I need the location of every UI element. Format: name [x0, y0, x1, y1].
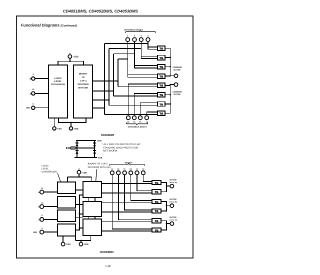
label CHANNELS IN/OUT (top row) with brace	[124, 28, 155, 33]
input pin B (top diagram)	[30, 73, 35, 80]
channel pin X2 (bottom row circle 3)	[138, 116, 142, 124]
svg-text:TG: TG	[159, 75, 163, 78]
block: logic level conversion 3 (bottom diagram)	[57, 210, 75, 222]
wire control bus vertical x=113.4	[112, 54, 114, 96]
svg-text:2: 2	[141, 34, 142, 37]
diode D4 (right, to VSS)	[93, 150, 96, 153]
transmission gate TG6 (bottom diagram)	[152, 228, 161, 232]
svg-text:TG: TG	[159, 94, 163, 97]
block U1: logic level conversion (top diagram)	[49, 65, 68, 118]
svg-text:TO: TO	[82, 76, 85, 79]
svg-text:LEVEL: LEVEL	[42, 167, 50, 170]
svg-text:cx: cx	[136, 169, 138, 171]
svg-text:CONVERSION: CONVERSION	[51, 83, 65, 86]
wire control stub to TG7	[109, 104, 157, 106]
wire decoder control to TG (bottom) 3	[102, 202, 153, 204]
wire channel cy to TG	[143, 175, 152, 182]
inset: input protection network schematic	[66, 140, 103, 160]
svg-text:ax or ay: ax or ay	[170, 181, 178, 184]
svg-text:bx or by: bx or by	[170, 201, 179, 204]
wire TG1 output	[165, 47, 170, 49]
wire decoder control to TG (bottom) 6	[102, 230, 153, 232]
transmission gate TG5 (bottom diagram)	[152, 219, 161, 223]
transmission gate TG8 (top diagram)	[157, 111, 165, 116]
svg-text:1: 1	[127, 34, 128, 37]
wire control stub to TG4	[118, 58, 128, 60]
block: binary to 1-of-2 decoder c (bottom diagram)	[83, 219, 102, 236]
wire channel cx to TG	[137, 175, 152, 191]
wire channel ay to TG	[118, 175, 152, 220]
svg-text:ay: ay	[117, 169, 119, 171]
power pin VEE (bottom diagram)	[75, 236, 90, 246]
page frame	[17, 16, 194, 258]
output pin OUT/IN ax or ay	[170, 179, 178, 188]
output pin OUT/IN cx or cy	[170, 216, 178, 225]
power pin VSS (bottom diagram)	[61, 236, 71, 246]
transmission gate TG5 (top diagram)	[157, 83, 165, 88]
block: logic level conversion 4 (bottom diagram)	[57, 224, 75, 236]
svg-text:CONVERSION: CONVERSION	[42, 170, 58, 173]
output pin OUT/IN bx or by	[170, 198, 179, 207]
svg-text:TG: TG	[155, 191, 159, 194]
wire control stub to TG3	[113, 53, 134, 55]
svg-text:9: 9	[42, 214, 43, 217]
channel pin X1 (bottom row circle 2)	[132, 116, 136, 124]
wire INH distribution bus	[76, 195, 83, 230]
wire decoder output at y=108	[93, 107, 105, 109]
channel pin X0 (bottom row circle 1)	[126, 116, 130, 124]
wire input INH to level conversion	[44, 231, 58, 233]
svg-text:NETWORK: NETWORK	[103, 150, 118, 153]
svg-text:6: 6	[33, 102, 34, 105]
transmission gate TG4 (top diagram)	[157, 74, 165, 79]
svg-text:LOGIC: LOGIC	[54, 77, 62, 80]
label: binary 1-of-2 decoder (pointer)	[88, 163, 111, 169]
power rail VSS (inset)	[75, 157, 97, 159]
transmission gate TG1 (bottom diagram)	[152, 180, 161, 184]
wire X-group common bus	[170, 85, 174, 114]
wire TG pair output bus (cx or cy)	[161, 221, 170, 230]
wire control bus vertical x=117.9	[117, 59, 119, 87]
wire control stub to TG5	[118, 86, 157, 88]
input pin A (top diagram)	[30, 88, 35, 95]
svg-text:by: by	[130, 168, 132, 171]
wire channel ax to TG	[112, 175, 152, 229]
channel pin X3 (bottom row circle 4)	[145, 116, 149, 124]
svg-text:OUT/IN: OUT/IN	[174, 69, 181, 72]
svg-text:TG: TG	[155, 182, 159, 185]
channel pin Y2 (top row circle 3)	[139, 34, 143, 41]
label CHANNELS IN/OUT (bottom row) with brace	[126, 123, 147, 129]
svg-text:TG: TG	[159, 85, 163, 88]
svg-text:LEVEL: LEVEL	[54, 80, 62, 83]
wire TG5 output	[165, 84, 170, 86]
transmission gate TG6 (top diagram)	[157, 92, 165, 97]
svg-text:TG: TG	[155, 201, 159, 204]
wire channel X3 to TG8	[147, 112, 158, 116]
channel pin bx (bottom diagram)	[123, 168, 127, 175]
svg-text:TG: TG	[159, 57, 163, 60]
wire decoder output at y=91	[93, 90, 114, 92]
input wire and resistor	[66, 147, 95, 149]
svg-text:TG: TG	[155, 210, 159, 213]
diode D3 (left, to VSS)	[76, 150, 79, 153]
wire TG7 output	[165, 103, 170, 105]
wire control stub to TG1	[105, 43, 149, 45]
functional block: bottom diagram CD4053BMS	[33, 162, 178, 247]
wire inset vertical right	[94, 141, 96, 158]
svg-text:VDD: VDD	[82, 171, 87, 174]
svg-text:VDD: VDD	[74, 56, 79, 59]
svg-text:TG: TG	[155, 220, 159, 223]
svg-text:12: 12	[127, 121, 129, 124]
common pin X COMMON OUT/IN	[173, 66, 183, 77]
wire control stub to TG8	[105, 114, 158, 116]
svg-text:9: 9	[33, 73, 34, 76]
svg-text:OUT/IN: OUT/IN	[174, 93, 181, 96]
wire TG8 output	[165, 112, 170, 114]
power pin VDD (bottom diagram)	[67, 169, 91, 182]
wire control bus vertical x=109	[108, 49, 110, 106]
wire channel Y1 to TG3	[135, 42, 158, 68]
svg-text:DECODER WITH INH: DECODER WITH INH	[88, 166, 111, 169]
wire Y-group common bus	[170, 48, 174, 76]
input pin c (bottom diagram)	[38, 214, 43, 221]
svg-text:TG: TG	[159, 113, 163, 116]
wire channel by to TG	[131, 175, 152, 201]
wire TG4 output	[165, 75, 170, 77]
svg-text:VEE: VEE	[74, 127, 79, 130]
wire decoder control to TG (bottom) 2	[102, 192, 153, 194]
svg-text:CD4051BMS, CD4052BMS, CD4053BM: CD4051BMS, CD4052BMS, CD4053BMS	[63, 8, 138, 13]
input pin INH (top diagram)	[26, 102, 35, 109]
power pin VSS (8) top diagram	[53, 118, 63, 130]
wire input B to logic level block	[35, 78, 49, 80]
svg-text:TG: TG	[159, 48, 163, 51]
svg-text:ax: ax	[111, 169, 113, 171]
transmission gate TG1 (top diagram)	[157, 46, 165, 51]
wire input INH to logic level block	[35, 107, 49, 109]
svg-text:1 OF 4: 1 OF 4	[80, 80, 87, 83]
wire TG2 output	[165, 57, 170, 59]
channel pin by (bottom diagram)	[129, 168, 133, 175]
wire input b to level conversion	[44, 206, 58, 208]
svg-text:VSS: VSS	[66, 243, 71, 246]
wire TG6 output	[165, 94, 170, 96]
svg-text:11: 11	[41, 187, 43, 190]
svg-text:Functional Diagrams (Continued: Functional Diagrams (Continued)	[21, 22, 77, 27]
channel pin cy (bottom diagram)	[141, 169, 145, 175]
svg-text:10: 10	[32, 88, 34, 91]
channel pin ay (bottom diagram)	[117, 169, 121, 175]
channel pin Y1 (top row circle 2)	[133, 34, 137, 41]
transmission gate TG2 (bottom diagram)	[152, 190, 161, 194]
svg-text:10: 10	[41, 201, 43, 204]
wire channel X2 to TG7	[140, 103, 157, 116]
channel pin ax (bottom diagram)	[110, 169, 114, 175]
functional block: top diagram CD4052BMS	[26, 28, 182, 130]
wire channel X0 to TG5	[128, 84, 157, 116]
diode D2 (right, to VDD)	[93, 143, 96, 146]
svg-text:VSS: VSS	[98, 157, 103, 160]
svg-text:TG: TG	[159, 103, 163, 106]
svg-text:cx or cy: cx or cy	[170, 218, 178, 221]
svg-text:WITH INH: WITH INH	[78, 87, 88, 90]
wire channel X1 to TG6	[134, 93, 157, 115]
transmission gate TG2 (top diagram)	[157, 55, 165, 60]
common pin Y COMMON OUT/IN	[173, 83, 183, 96]
power rail VDD (inset)	[76, 140, 96, 142]
wire channel Y3 to TG1	[148, 42, 157, 50]
wire decoder output at y=81	[93, 80, 118, 82]
wire control stub to TG6	[113, 95, 157, 97]
wire decoder control to TG (bottom) 5	[102, 221, 153, 223]
svg-text:11: 11	[146, 121, 148, 124]
svg-text:INH: INH	[33, 231, 37, 234]
svg-text:TG: TG	[159, 66, 163, 69]
channel pin cx (bottom diagram)	[135, 169, 139, 175]
svg-text:VSS: VSS	[57, 127, 62, 130]
svg-text:CD4053BMS: CD4053BMS	[100, 250, 114, 254]
svg-text:BINARY TO 1 OF 2: BINARY TO 1 OF 2	[88, 163, 109, 166]
power pin VEE (7) and bottom bracket wire	[59, 118, 87, 130]
transmission gate TG3 (top diagram)	[157, 65, 165, 70]
block: binary to 1-of-2 decoder a (bottom diagram)	[83, 182, 102, 198]
transmission gate TG3 (bottom diagram)	[152, 200, 161, 204]
wire level conversion to decoder	[76, 189, 83, 191]
block U2: binary to 1-of-4 decoder with inhibit (top diagram)	[74, 65, 93, 118]
svg-text:6: 6	[42, 227, 43, 230]
diode D1 (left, to VDD)	[76, 143, 79, 146]
wire TG pair output bus (ax or ay)	[161, 183, 170, 192]
block: binary to 1-of-2 decoder b (bottom diagram)	[83, 202, 102, 217]
transmission gate TG4 (bottom diagram)	[152, 209, 161, 213]
note: all inputs protected	[102, 143, 141, 153]
wire TG3 output	[165, 66, 170, 68]
wire level conversion to decoder	[76, 204, 83, 206]
svg-text:TG: TG	[155, 229, 159, 232]
svg-text:CD4052BMS: CD4052BMS	[101, 133, 114, 137]
input pin INH (bottom diagram)	[33, 227, 43, 234]
label IN/OUT with brace (bottom diagram)	[110, 162, 145, 166]
svg-text:LOGIC: LOGIC	[42, 164, 49, 167]
wire decoder control to TG (bottom) 1	[102, 183, 153, 185]
svg-text:bx: bx	[124, 168, 126, 171]
svg-text:7-48: 7-48	[105, 264, 111, 268]
node: protection junctions	[76, 147, 77, 148]
wire decoder output at y=100	[93, 99, 109, 101]
wire decoder cascade stubs	[88, 198, 95, 219]
wire control stub to TG2	[109, 48, 141, 50]
label: logic level conversion (pointer)	[42, 164, 58, 173]
transmission gate TG7 (top diagram)	[157, 102, 165, 107]
block: logic level conversion 1 (bottom diagram)	[57, 182, 75, 194]
wire channel Y2 to TG2	[141, 42, 157, 59]
wire channel bx to TG	[125, 175, 153, 210]
svg-text:VEE: VEE	[84, 243, 89, 246]
wire input a to level conversion	[44, 191, 58, 193]
wire input A to logic level block	[35, 92, 49, 94]
wire decoder control to TG (bottom) 4	[102, 211, 153, 213]
svg-text:BINARY: BINARY	[79, 73, 88, 76]
svg-text:cy: cy	[142, 169, 144, 171]
svg-text:15: 15	[139, 121, 141, 124]
wire TG pair output bus (bx or by)	[161, 202, 170, 211]
wire input c to level conversion	[44, 218, 58, 220]
page background	[0, 0, 213, 275]
wire inset vertical left	[76, 141, 78, 158]
block: logic level conversion 2 (bottom diagram)	[57, 196, 75, 208]
wire channel Y0 to TG4	[128, 42, 158, 78]
svg-text:DECODER: DECODER	[78, 83, 89, 86]
svg-text:5: 5	[134, 34, 135, 37]
channel pin Y0 (top row circle 1)	[126, 34, 130, 41]
power pin VDD (16) top diagram	[58, 53, 84, 65]
input pin a (bottom diagram)	[38, 187, 43, 194]
svg-text:INH: INH	[26, 107, 30, 110]
input pin b (bottom diagram)	[38, 201, 43, 208]
wire level conversion to decoder	[76, 216, 83, 218]
channel pin Y3 (top row circle 4)	[146, 34, 150, 41]
svg-text:CHANNELS IN/OUT: CHANNELS IN/OUT	[128, 126, 148, 129]
wire control bus vertical x=104.5	[104, 44, 106, 115]
